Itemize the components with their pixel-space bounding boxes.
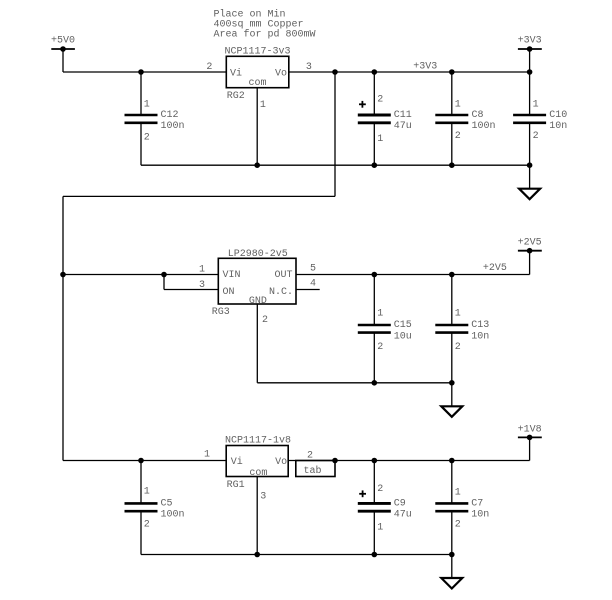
svg-text:100n: 100n (161, 509, 185, 520)
svg-text:NCP1117-3v3: NCP1117-3v3 (224, 47, 290, 58)
svg-text:Vi: Vi (231, 456, 243, 468)
svg-text:C15: C15 (394, 320, 412, 331)
svg-text:RG3: RG3 (212, 307, 230, 318)
svg-text:+3V3: +3V3 (518, 36, 542, 47)
svg-text:3: 3 (199, 280, 205, 291)
wire bottom ground rail (141, 554, 452, 556)
junction top rail / feed (332, 69, 338, 75)
regulator U RG2 NCP1117-3v3 (224, 47, 290, 103)
svg-text:47u: 47u (394, 121, 412, 132)
junction bottom rail / tab (332, 458, 338, 464)
ground symbol top (519, 165, 540, 199)
power symbol +2V5 (518, 238, 542, 254)
svg-text:1: 1 (377, 309, 383, 320)
junction bottom gnd / C7 (449, 552, 455, 558)
svg-text:2: 2 (455, 342, 461, 353)
svg-text:2: 2 (377, 484, 383, 495)
svg-text:2: 2 (262, 315, 268, 326)
svg-text:2: 2 (206, 62, 212, 73)
junction bottom rail / C5 (138, 458, 144, 464)
capacitor C12 100n (125, 72, 185, 165)
junction top rail / C11 (372, 69, 378, 75)
wire mid input rail (63, 274, 218, 276)
svg-text:LP2980-2v5: LP2980-2v5 (228, 249, 288, 260)
junction mid rail / C13 (449, 272, 455, 278)
svg-text:Vi: Vi (230, 68, 242, 80)
wire top ground rail (141, 164, 530, 166)
ground symbol middle (441, 383, 462, 417)
svg-text:com: com (249, 468, 267, 479)
svg-text:1: 1 (260, 100, 266, 111)
svg-text:VIN: VIN (223, 270, 241, 281)
ground symbol bottom (441, 555, 462, 589)
wire ON branch horizontal (164, 289, 218, 291)
wire mid ground rail (257, 382, 452, 384)
capacitor C11 47u polarized (358, 72, 412, 165)
svg-text:1: 1 (533, 100, 539, 111)
svg-text:tab: tab (303, 465, 321, 477)
wire bottom output rail (288, 460, 529, 462)
svg-text:ON: ON (223, 287, 235, 298)
tab box (296, 461, 335, 478)
capacitor C8 100n (435, 72, 495, 165)
svg-text:47u: 47u (394, 509, 412, 520)
svg-text:1: 1 (455, 100, 461, 111)
junction top rail / C12 (138, 69, 144, 75)
wire ON branch vertical (163, 275, 165, 290)
junction bottom gnd / C9 (372, 552, 378, 558)
svg-text:C13: C13 (471, 320, 489, 331)
wire bottom input rail (63, 460, 226, 462)
svg-text:+2V5: +2V5 (483, 263, 507, 274)
wire mid output rail (296, 274, 530, 276)
junction bottom gnd / com (254, 552, 260, 558)
junction bottom rail / C9 (372, 458, 378, 464)
junction top gnd / com (254, 162, 260, 168)
svg-text:Vo: Vo (275, 457, 287, 468)
svg-text:2: 2 (377, 95, 383, 106)
junction bottom rail / C7 (449, 458, 455, 464)
svg-text:C7: C7 (471, 498, 483, 509)
regulator U RG1 NCP1117-1v8 (225, 436, 291, 492)
junction top rail / C10 riser (527, 69, 533, 75)
svg-text:10n: 10n (471, 509, 489, 520)
svg-text:1: 1 (144, 487, 150, 498)
svg-text:2: 2 (533, 131, 539, 142)
svg-text:RG1: RG1 (227, 480, 245, 491)
svg-text:1: 1 (455, 309, 461, 320)
svg-text:+5V0: +5V0 (51, 36, 75, 47)
svg-text:1: 1 (455, 488, 461, 499)
svg-text:100n: 100n (472, 121, 496, 132)
svg-text:C12: C12 (161, 110, 179, 121)
svg-text:C5: C5 (161, 498, 173, 509)
capacitor C15 10u (358, 275, 412, 383)
svg-text:1: 1 (144, 100, 150, 111)
svg-text:+2V5: +2V5 (518, 238, 542, 249)
junction mid gnd / C15 (372, 380, 378, 386)
svg-text:2: 2 (144, 520, 150, 531)
svg-text:4: 4 (310, 279, 316, 290)
svg-text:10u: 10u (394, 332, 412, 343)
capacitor C10 10n (513, 72, 567, 165)
wire top output rail (289, 71, 530, 73)
wire top input rail (63, 71, 226, 73)
junction top rail / C8 (449, 69, 455, 75)
junction top gnd / C11 (372, 162, 378, 168)
wire +3V3 riser (529, 49, 531, 72)
svg-text:C9: C9 (394, 498, 406, 509)
svg-text:C11: C11 (394, 110, 412, 121)
junction mid gnd / C13 (449, 380, 455, 386)
svg-text:Vo: Vo (275, 69, 287, 80)
power symbol +1V8 (518, 424, 542, 440)
svg-text:com: com (248, 78, 266, 89)
regulator U RG3 LP2980-2v5 (212, 249, 296, 318)
svg-text:2: 2 (455, 131, 461, 142)
wire +1V8 riser (529, 437, 531, 460)
note text (214, 8, 316, 40)
svg-text:+3V3: +3V3 (413, 61, 437, 72)
svg-text:10n: 10n (471, 332, 489, 343)
junction mid rail / ON branch (161, 272, 167, 278)
svg-text:10n: 10n (549, 121, 567, 132)
svg-text:RG2: RG2 (227, 91, 245, 102)
svg-text:C10: C10 (549, 110, 567, 121)
wire feed left vertical (62, 196, 64, 460)
svg-text:1: 1 (204, 450, 210, 461)
power symbol +5V0 (51, 36, 75, 52)
svg-text:Area for pd 800mW: Area for pd 800mW (214, 28, 316, 40)
svg-text:N.C.: N.C. (269, 287, 293, 298)
capacitor C9 47u polarized (358, 461, 412, 555)
wire RG2 com lead (256, 88, 258, 166)
svg-text:+1V8: +1V8 (518, 424, 542, 435)
junction mid rail / feed (60, 272, 66, 278)
wire N.C. stub (296, 289, 320, 291)
wire RG3 GND lead (256, 304, 258, 383)
svg-text:NCP1117-1v8: NCP1117-1v8 (225, 436, 291, 447)
svg-text:2: 2 (377, 342, 383, 353)
wire +5V0 riser (62, 49, 64, 72)
wire RG1 com lead (256, 477, 258, 555)
junction mid rail / C15 (372, 272, 378, 278)
svg-text:1: 1 (377, 134, 383, 145)
svg-text:C8: C8 (472, 110, 484, 121)
junction top gnd / C10 (527, 162, 533, 168)
wire feed horizontal jog (63, 195, 335, 197)
svg-text:2: 2 (144, 133, 150, 144)
wire feed down from pin3 node (334, 72, 336, 196)
junction top gnd / C8 (449, 162, 455, 168)
power symbol +3V3 (518, 36, 542, 52)
capacitor C13 10n (435, 275, 489, 383)
svg-text:OUT: OUT (274, 270, 292, 281)
svg-text:1: 1 (199, 265, 205, 276)
svg-text:1: 1 (377, 523, 383, 534)
svg-text:3: 3 (260, 491, 266, 502)
wire +2V5 riser (529, 251, 531, 275)
capacitor C5 100n (125, 461, 185, 555)
svg-text:2: 2 (455, 520, 461, 531)
capacitor C7 10n (435, 461, 489, 555)
svg-text:100n: 100n (161, 121, 185, 132)
svg-text:5: 5 (310, 264, 316, 275)
